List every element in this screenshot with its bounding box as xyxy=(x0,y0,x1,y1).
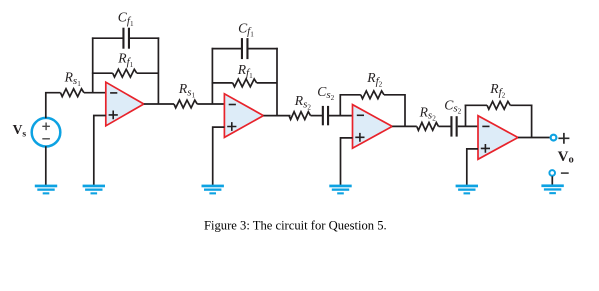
svg-text:Cf1: Cf1 xyxy=(238,20,254,38)
wire stage3 feedback left vertical xyxy=(339,94,341,116)
svg-text:Rs2: Rs2 xyxy=(294,93,312,111)
svg-text:Vs: Vs xyxy=(13,122,27,139)
wire terminal to ground xyxy=(551,176,553,185)
wire stage1 Rf1 branch left xyxy=(92,72,113,74)
svg-text:Rs2: Rs2 xyxy=(419,104,437,122)
ground G3 xyxy=(202,185,224,195)
wire stage2 feedback right vertical xyxy=(276,48,278,116)
capacitor Cf1 second xyxy=(241,38,249,59)
wire U1 noninverting input to ground xyxy=(94,116,106,186)
resistor Rs1 xyxy=(61,89,84,97)
wire U4 output to terminal xyxy=(518,137,550,139)
wire stage4 feedback left vertical xyxy=(465,105,467,127)
wire U3 output to Rs2 second xyxy=(392,125,417,127)
resistor Rf2 second xyxy=(487,101,510,109)
wire stage3 feedback top left xyxy=(340,94,361,96)
op-amp U1 xyxy=(106,82,144,126)
wire stage4 feedback top right xyxy=(510,104,532,106)
wire Rs2 to Cs2 xyxy=(311,115,323,117)
svg-text:Rf1: Rf1 xyxy=(117,51,133,69)
svg-text:Cs2: Cs2 xyxy=(317,84,334,102)
wire stage2 Rf1 branch left xyxy=(212,82,233,84)
wire Rs1 to U1 inverting input xyxy=(84,92,106,94)
wire stage4 feedback top left xyxy=(465,104,487,106)
wire Rs1 second to U2 inverting input xyxy=(197,103,224,105)
resistor Rs2 xyxy=(289,112,311,120)
wire stage3 feedback right vertical xyxy=(404,94,406,126)
wire stage1 feedback top left xyxy=(92,37,123,39)
wire U2 output to Rs2 xyxy=(263,115,290,117)
svg-text:Rf2: Rf2 xyxy=(489,81,505,99)
op-amp U2 xyxy=(224,94,263,138)
wire U4 noninverting input to ground xyxy=(467,149,478,186)
svg-text:Rs1: Rs1 xyxy=(178,81,196,99)
capacitor Cs2 xyxy=(322,106,329,125)
wire Rs2 second to Cs2 second xyxy=(439,125,451,127)
wire stage4 feedback right vertical xyxy=(531,105,533,138)
wire Vs top to Rs1 xyxy=(46,93,61,119)
capacitor Cf1 xyxy=(122,28,130,49)
op-amp U3 xyxy=(353,105,393,149)
ground G1 xyxy=(35,185,57,195)
svg-text:Vo: Vo xyxy=(558,149,574,166)
wire stage3 feedback top right xyxy=(384,94,405,96)
resistor Rs1 second xyxy=(174,100,197,108)
svg-text:Cs2: Cs2 xyxy=(444,97,461,115)
terminal Vo minus xyxy=(549,170,555,176)
wire stage2 feedback top right xyxy=(248,48,278,50)
terminal Vo plus xyxy=(551,135,557,141)
wire Cs2 to U3 inverting input xyxy=(329,115,353,117)
svg-text:Figure 3: The circuit for Ques: Figure 3: The circuit for Question 5. xyxy=(204,218,387,232)
resistor Rf1 second xyxy=(233,79,257,87)
wire stage1 Rf1 branch right xyxy=(137,72,159,74)
wire stage1 feedback left vertical xyxy=(92,37,94,92)
wire U3 noninverting input to ground xyxy=(341,138,353,186)
op-amp U4 xyxy=(478,116,518,160)
label minus output xyxy=(561,172,569,174)
svg-text:Rs1: Rs1 xyxy=(64,70,82,88)
capacitor Cs2 second xyxy=(450,116,457,136)
resistor Rs2 second xyxy=(417,123,439,131)
ground G6 xyxy=(541,184,563,194)
wire stage1 feedback top right xyxy=(130,37,159,39)
wire Cs2 second to U4 inverting input xyxy=(458,125,478,127)
svg-text:Rf2: Rf2 xyxy=(366,70,382,88)
wire Vs bottom to ground xyxy=(45,146,47,185)
label plus output xyxy=(558,133,569,144)
ground G4 xyxy=(329,185,351,195)
resistor Rf1 xyxy=(113,69,137,77)
svg-text:Cf1: Cf1 xyxy=(118,10,134,28)
wire stage2 feedback left vertical xyxy=(211,48,213,104)
svg-text:Rf1: Rf1 xyxy=(237,62,253,80)
wire U1 output to Rs1 second xyxy=(144,103,174,105)
wire stage2 Rf1 branch right xyxy=(257,82,277,84)
wire stage2 feedback top left xyxy=(212,48,242,50)
voltage source Vs xyxy=(32,118,61,147)
wire stage1 feedback right vertical xyxy=(157,37,159,104)
ground G5 xyxy=(456,185,478,195)
ground G2 xyxy=(83,185,105,195)
wire U2 noninverting input to ground xyxy=(213,127,225,185)
resistor Rf2 xyxy=(361,91,384,99)
